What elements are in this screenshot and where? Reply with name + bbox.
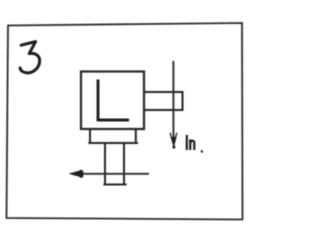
valve body (main square box): [81, 72, 144, 130]
label In.: [187, 135, 195, 150]
outlet arrow shaft: [78, 173, 149, 175]
inlet arrow shaft: [172, 61, 174, 141]
outlet arrowhead: [69, 170, 83, 178]
outer figure frame (drawn, slightly slanted scan): [7, 23, 243, 220]
flange below body: [88, 130, 138, 144]
right port (outlet stub): [144, 92, 183, 110]
inlet arrowhead: [170, 133, 177, 145]
figure number 3: [20, 42, 40, 73]
L mark inside body: [97, 80, 129, 121]
outlet stem tube: [103, 144, 126, 185]
